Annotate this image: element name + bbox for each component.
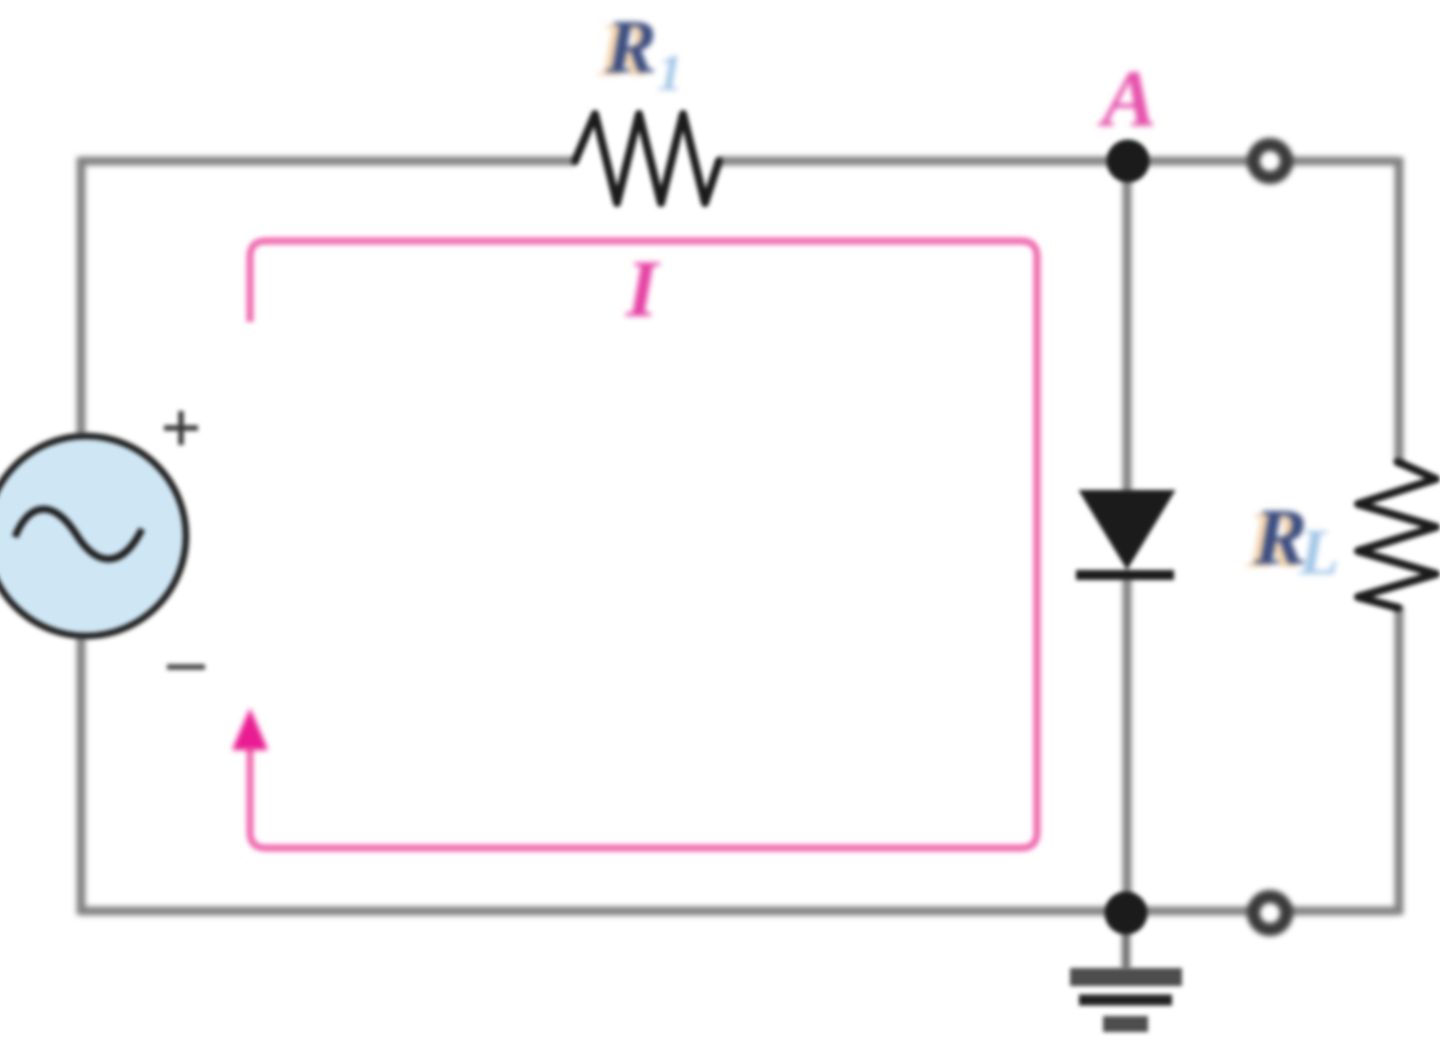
- svg-text:A: A: [1097, 53, 1157, 144]
- AC source sine wave: [15, 509, 142, 559]
- wire: right vertical upper (top corner to RL): [1395, 157, 1404, 464]
- wire: top horizontal from R1 to top-right corner: [719, 157, 1397, 166]
- ground bar 3: [1103, 1016, 1148, 1032]
- wire: right vertical lower (RL to bottom corner): [1395, 606, 1404, 915]
- terminal: bottom open circle: [1254, 897, 1287, 930]
- wire: bottom horizontal: [81, 907, 1397, 916]
- resistor RL zigzag: [1358, 462, 1436, 608]
- ground symbol stem: [1122, 913, 1130, 970]
- svg-text:L: L: [1298, 516, 1339, 589]
- diode cathode bar: [1076, 570, 1174, 580]
- minus sign: [167, 664, 205, 670]
- terminal: top open circle: [1254, 145, 1287, 178]
- wire: left vertical lower (source to bottom wire): [77, 636, 86, 915]
- current loop I (pink rounded rect with gap on left): [250, 241, 1037, 848]
- wire: top left horizontal from source corner to R1: [81, 157, 575, 166]
- AC source V circle: [0, 436, 186, 636]
- plus sign: [164, 411, 198, 445]
- bottom junction dot: [1105, 892, 1148, 935]
- ground bar 2: [1079, 995, 1172, 1006]
- diode D (anode top, cathode bottom): [1082, 492, 1172, 566]
- wire: diode branch vertical (diode to bottom node): [1123, 576, 1132, 911]
- ground bar 1: [1070, 968, 1182, 986]
- current loop arrowhead: [232, 708, 268, 750]
- svg-text:1: 1: [657, 45, 683, 102]
- svg-text:I: I: [625, 243, 661, 334]
- node A junction dot: [1107, 140, 1150, 183]
- wire: left vertical upper (source to top wire): [77, 157, 86, 436]
- wire: diode branch vertical (node A down to diode): [1123, 161, 1132, 494]
- svg-text:R: R: [605, 5, 657, 89]
- resistor R1 zigzag: [575, 114, 719, 203]
